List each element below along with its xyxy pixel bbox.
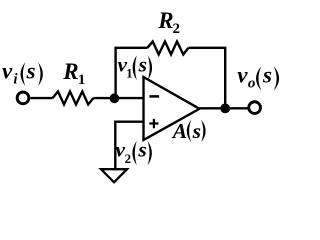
wire R1 to node v1 bbox=[93, 97, 114, 99]
wire op-amp noninverting input to ground bbox=[115, 122, 144, 170]
node vo junction dot bbox=[220, 104, 230, 114]
svg-text:v: v bbox=[237, 63, 248, 88]
svg-text:A: A bbox=[171, 119, 187, 143]
svg-text:R: R bbox=[157, 8, 173, 33]
svg-text:s: s bbox=[138, 52, 147, 76]
svg-text:s: s bbox=[262, 63, 272, 88]
svg-text:s: s bbox=[26, 59, 36, 84]
svg-text:2: 2 bbox=[125, 151, 132, 166]
label A(s) bbox=[171, 119, 206, 143]
resistor R2 bbox=[147, 42, 188, 55]
wire input terminal to R1 bbox=[30, 97, 52, 99]
label v2(s) bbox=[115, 138, 151, 166]
svg-text:2: 2 bbox=[173, 21, 181, 37]
output terminal vo bbox=[249, 102, 261, 114]
svg-text:1: 1 bbox=[126, 65, 133, 80]
op-amp inverting input minus sign bbox=[149, 95, 159, 98]
svg-text:o: o bbox=[248, 76, 256, 92]
label v1(s) bbox=[118, 52, 153, 80]
wire op-amp output to terminal bbox=[199, 107, 248, 109]
resistor R1 bbox=[53, 92, 94, 105]
wire feedback left vertical bbox=[116, 48, 148, 98]
op-amp A(s) triangle bbox=[144, 77, 200, 140]
wire node v1 to op-amp inverting input bbox=[114, 97, 144, 99]
ground bbox=[101, 169, 127, 182]
label vo(s) bbox=[237, 63, 279, 92]
label vi(s) bbox=[2, 59, 43, 88]
svg-text:1: 1 bbox=[78, 72, 86, 88]
svg-text:s: s bbox=[192, 119, 201, 143]
label R1 bbox=[62, 59, 85, 88]
svg-text:v: v bbox=[2, 59, 13, 84]
svg-text:R: R bbox=[62, 59, 78, 84]
node v1 junction dot bbox=[110, 93, 120, 103]
wire feedback top right and right vertical bbox=[188, 48, 225, 109]
svg-text:s: s bbox=[137, 138, 146, 162]
input terminal vi bbox=[17, 92, 29, 104]
label R2 bbox=[157, 8, 180, 37]
op-amp noninverting input plus sign bbox=[149, 119, 158, 128]
